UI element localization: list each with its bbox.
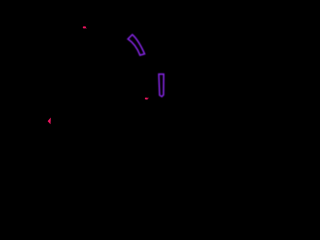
purple needle shape 2 (vertical strip with pointed bottom)	[159, 74, 164, 97]
red marker 2	[145, 97, 148, 99]
red marker 1 tail	[86, 28, 87, 29]
red marker 3	[48, 118, 51, 125]
red marker 2 tail	[147, 98, 149, 99]
red marker 1	[83, 26, 86, 28]
purple band shape 1 (annular segment outline)	[128, 35, 145, 56]
